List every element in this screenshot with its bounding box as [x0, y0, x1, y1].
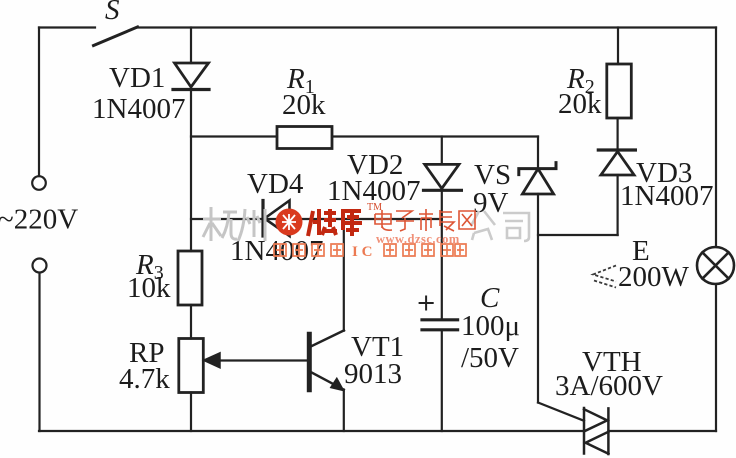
watermark gray character Gong — [471, 211, 495, 240]
wire VD2 to capacitor — [441, 190, 443, 318]
diode VD1 — [173, 63, 209, 90]
terminal top — [32, 176, 46, 190]
triac VTH — [584, 408, 608, 454]
resistor R2 — [607, 64, 632, 118]
watermark outlined char Shi — [419, 209, 433, 231]
wire top rail left — [39, 26, 95, 28]
switch S blade — [94, 27, 138, 46]
svg-text:I C: I C — [352, 244, 372, 260]
wire triac gate diagonal — [538, 403, 584, 421]
svg-text:20k: 20k — [558, 88, 602, 120]
wire left rail lower — [38, 273, 40, 431]
watermark slogan row — [274, 244, 466, 256]
capacitor plus sign — [420, 297, 433, 310]
svg-text:VD4: VD4 — [247, 168, 304, 200]
svg-text:4.7k: 4.7k — [119, 363, 170, 395]
watermark red char Ku — [341, 211, 362, 236]
wire mid rail y136 — [191, 135, 538, 137]
svg-text:1N4007: 1N4007 — [230, 235, 323, 267]
svg-text:20k: 20k — [282, 89, 326, 121]
diode VD4 — [263, 201, 290, 237]
wire VS branch lower — [537, 194, 539, 403]
watermark outlined char Chang — [440, 210, 454, 231]
svg-text:S: S — [105, 0, 120, 26]
wire right rail lower — [715, 284, 717, 431]
resistor R1 — [277, 127, 332, 149]
svg-text:TM: TM — [367, 202, 382, 213]
svg-text:1N4007: 1N4007 — [92, 93, 185, 125]
watermark gray character Zhou — [238, 209, 265, 241]
wire VD3 to R2 — [616, 118, 618, 150]
wire bottom rail — [39, 430, 716, 432]
label E value leq sign — [593, 266, 616, 288]
wire node row y219 — [191, 218, 442, 220]
watermark red seal logo — [276, 209, 303, 236]
lamp E — [697, 247, 734, 284]
svg-text:3A/600V: 3A/600V — [555, 370, 663, 402]
potentiometer RP — [179, 339, 204, 393]
wire VD1 branch top — [190, 28, 192, 64]
wire VS branch top — [537, 137, 539, 169]
wire VD2 branch — [441, 137, 443, 165]
wire VD1 to R3 — [190, 88, 192, 251]
watermark outlined char Wang — [459, 211, 475, 229]
svg-text:9013: 9013 — [344, 358, 402, 390]
watermark gray character Hang — [203, 207, 237, 241]
svg-text:VD1: VD1 — [109, 62, 165, 94]
wire left rail upper — [38, 28, 40, 177]
svg-text:~220V: ~220V — [0, 204, 78, 236]
diode VD3 — [598, 150, 635, 175]
svg-text:100μ: 100μ — [461, 310, 520, 342]
wire capacitor to bottom rail — [441, 331, 443, 431]
watermark outlined char Zi — [396, 211, 414, 231]
watermark red char Wei — [308, 209, 337, 236]
diode VD2 — [424, 164, 462, 190]
wire collector branch — [343, 219, 345, 331]
terminal bottom — [33, 259, 47, 273]
svg-text:/50V: /50V — [461, 342, 519, 374]
capacitor C — [422, 320, 458, 330]
svg-text:200W: 200W — [618, 261, 690, 293]
wire R2 to top rail — [617, 28, 619, 65]
wire R3 to RP — [190, 305, 192, 339]
svg-text:10k: 10k — [127, 272, 171, 304]
zener VS — [519, 163, 556, 194]
transistor VT1 — [204, 330, 345, 431]
resistor R3 — [178, 251, 202, 305]
wire VD3 bottom lead — [616, 175, 618, 235]
wire node row y235 — [538, 234, 618, 236]
wire RP to bottom rail — [190, 393, 192, 432]
wire right rail upper — [715, 28, 717, 248]
watermark gray character Si — [503, 213, 529, 241]
wire top rail right — [138, 26, 717, 28]
svg-text:1N4007: 1N4007 — [620, 180, 713, 212]
watermark outlined char Dian — [375, 210, 392, 230]
